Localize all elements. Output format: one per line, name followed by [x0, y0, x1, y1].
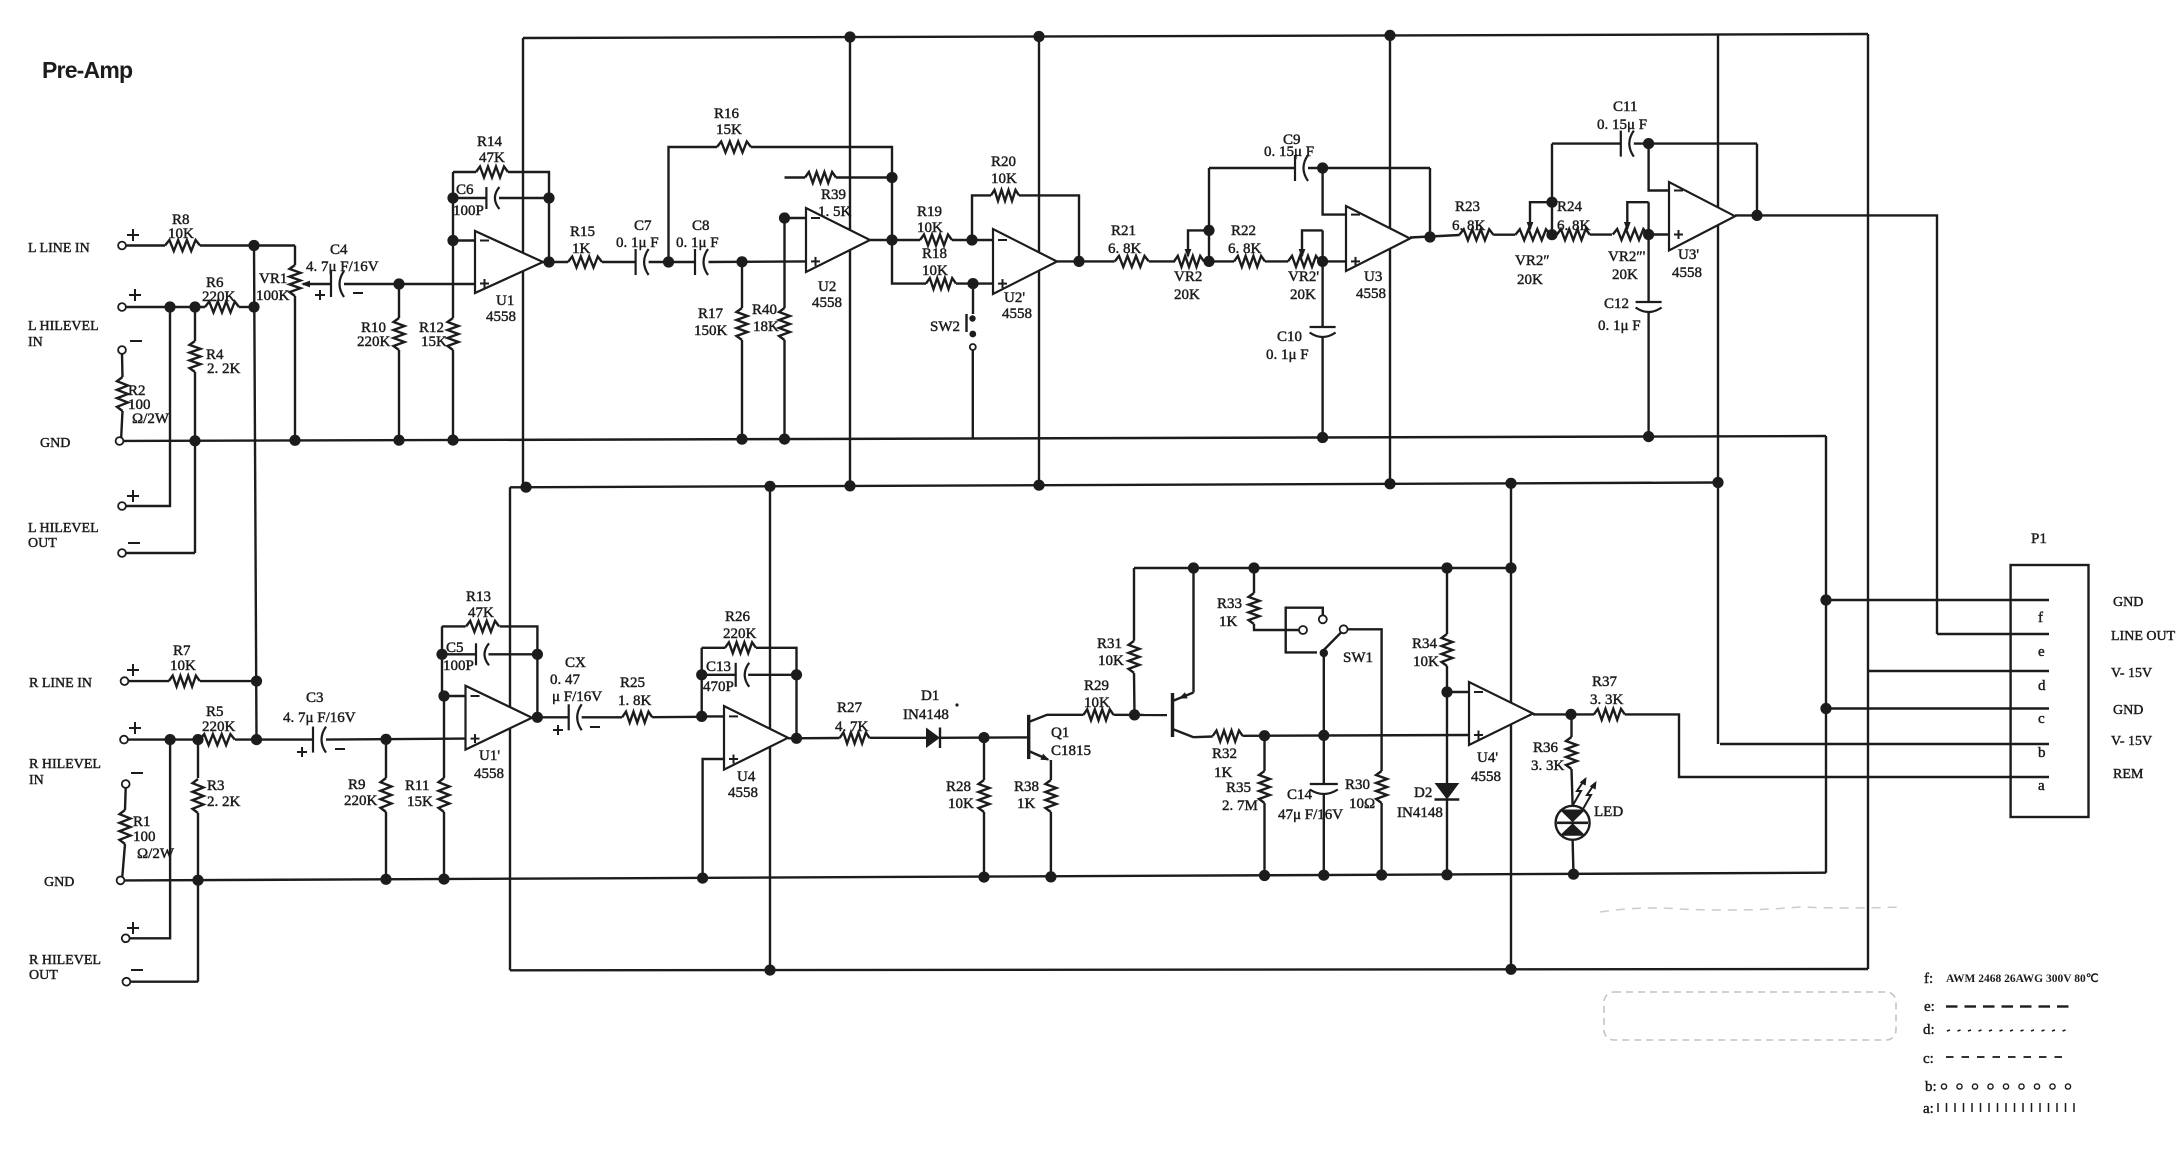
- svg-text:C12: C12: [1604, 296, 1629, 312]
- transistor Q2 emitter (to V- bus): [1173, 693, 1194, 702]
- svg-text:d: d: [2038, 678, 2046, 694]
- wire: U2 minus input: [785, 217, 807, 219]
- wire: C9 to U3 minus: [1323, 168, 1346, 215]
- resistor R37 (3.3K): [1594, 709, 1625, 720]
- svg-text:L HILEVEL: L HILEVEL: [28, 319, 99, 334]
- wire: input-mix vertical x=254 (to R channel): [254, 246, 257, 740]
- wire: R HILEVEL OUT + riser: [130, 740, 170, 939]
- wire: L HILEVEL IN to R6: [126, 306, 205, 308]
- resistor R38 (1K): [1045, 780, 1056, 812]
- resistor R30 (10 ohm): [1376, 771, 1387, 803]
- node: R4 top: [189, 301, 200, 312]
- svg-text:c: c: [2038, 711, 2045, 727]
- node: bus486 x=526: [520, 482, 531, 493]
- svg-text:IN: IN: [28, 335, 43, 350]
- node: C12-GND: [1643, 431, 1654, 442]
- wire: U1' minus input: [444, 695, 466, 697]
- node: bus970 x=770: [764, 965, 775, 976]
- capacitor C14 (47uF/16V): [1323, 735, 1325, 784]
- svg-text:C6: C6: [456, 182, 474, 198]
- wire: C3 to U1'+: [326, 739, 466, 740]
- svg-text:4558: 4558: [812, 295, 842, 311]
- node: U4 minus: [696, 711, 707, 722]
- wire: C9 to U3 output: [1429, 168, 1431, 237]
- svg-text:LED: LED: [1594, 804, 1623, 820]
- wire: mid V- bus y=486: [510, 483, 1718, 488]
- svg-text:SW2: SW2: [930, 319, 960, 335]
- svg-text:R18: R18: [922, 246, 947, 262]
- wire: U3' + input: [1649, 233, 1669, 235]
- node: C13 left: [696, 669, 707, 680]
- wire: Q2 collector to R32: [1194, 735, 1213, 738]
- node: L mix2: [248, 301, 259, 312]
- diode D2 (IN4148): [1446, 692, 1448, 783]
- resistor R12: [452, 241, 454, 319]
- wire: pin d (V- 15V): [1868, 670, 2049, 672]
- node: R mix1: [251, 676, 262, 687]
- wire: HILEVEL OUT - to R4 column: [126, 552, 195, 554]
- svg-text:100: 100: [133, 829, 156, 845]
- wire: R21 to VR2: [1149, 260, 1175, 262]
- node: bus568 x=1254: [1248, 562, 1259, 573]
- svg-text:V- 15V: V- 15V: [2111, 666, 2152, 681]
- svg-text:R30: R30: [1345, 777, 1370, 793]
- wire: Q2 emitter riser: [1192, 568, 1194, 693]
- svg-text:R36: R36: [1533, 740, 1559, 756]
- node: R3-GND: [192, 875, 203, 886]
- svg-text:15K: 15K: [407, 794, 433, 810]
- op-amp U4 (4558): [724, 706, 788, 770]
- node: R18/SW2: [967, 278, 978, 289]
- svg-text:U4: U4: [737, 769, 756, 785]
- resistor R28 (10K): [983, 738, 985, 780]
- resistor R17 (150K): [741, 262, 743, 308]
- svg-text:REM: REM: [2113, 767, 2144, 782]
- svg-text:0. 1μ F: 0. 1μ F: [1266, 347, 1309, 363]
- node: U4 output: [791, 733, 802, 744]
- switch SW1 pole and lever: [1320, 649, 1328, 657]
- svg-text:15K: 15K: [421, 334, 447, 350]
- resistor R5 (220K): [200, 734, 235, 745]
- wire: right V- drop x=1868 (top bus to pin d to bus970): [1867, 34, 1869, 969]
- svg-text:4558: 4558: [1672, 265, 1702, 281]
- node: U2 output: [886, 234, 897, 245]
- svg-text:4558: 4558: [486, 309, 516, 325]
- capacitor C8 (0.1uF): [694, 249, 696, 275]
- svg-text:μ F/16V: μ F/16V: [552, 689, 602, 705]
- svg-text:20K: 20K: [1517, 272, 1543, 288]
- wire: left V- rail x=523 (through U1): [522, 38, 524, 487]
- potentiometer VR1 wiper arrow: [303, 283, 331, 285]
- svg-text:0. 47: 0. 47: [550, 672, 581, 688]
- terminal R HILEVEL OUT +: [122, 934, 130, 942]
- potentiometer VR1 body: [294, 246, 296, 266]
- wire: R LINE IN to R7: [129, 680, 170, 682]
- node: bus486 x=770: [764, 481, 775, 492]
- svg-text:C14: C14: [1287, 787, 1313, 803]
- svg-text:L LINE IN: L LINE IN: [28, 241, 90, 256]
- wire: U4 + input to GND: [703, 759, 724, 878]
- wire: U2 apex to out: [870, 239, 920, 241]
- svg-text:10K: 10K: [917, 220, 943, 236]
- svg-text:10Ω: 10Ω: [1349, 796, 1375, 812]
- svg-text:10K: 10K: [991, 171, 1017, 187]
- svg-text:Pre-Amp: Pre-Amp: [42, 57, 133, 83]
- svg-text:2. 7M: 2. 7M: [1222, 798, 1258, 814]
- wire: HILEVEL OUT + riser: [126, 307, 170, 506]
- svg-text:R29: R29: [1084, 678, 1109, 694]
- wire: R25 to U4 minus: [652, 716, 702, 719]
- svg-text:C4: C4: [330, 242, 348, 258]
- svg-text:R17: R17: [698, 306, 724, 322]
- svg-text:GND: GND: [2113, 703, 2143, 718]
- svg-text:10K: 10K: [1413, 654, 1439, 670]
- resistor R10: [398, 284, 400, 318]
- node: R28-GND: [978, 872, 989, 883]
- wire: VR2''' node riser: [1647, 202, 1649, 234]
- svg-text:IN: IN: [29, 773, 44, 788]
- wire: R29 to Q2 base: [1114, 714, 1168, 717]
- wire: U3 out: [1410, 235, 1460, 238]
- node: R40-GND: [779, 434, 790, 445]
- svg-text:GND: GND: [2113, 595, 2143, 610]
- node: C3/R9: [380, 734, 391, 745]
- wire: R4 to GND bus and HILEVEL OUT -: [194, 372, 196, 553]
- svg-text:U2: U2: [818, 279, 836, 295]
- wire: U1 minus input: [453, 239, 475, 241]
- node: R35-GND: [1259, 870, 1270, 881]
- wire: U4 minus input: [702, 715, 724, 717]
- wire: U1 apex to output: [543, 261, 568, 263]
- svg-text:c:: c:: [1923, 1051, 1934, 1067]
- terminal L HILEVEL OUT +: [118, 502, 126, 510]
- svg-text:4558: 4558: [474, 766, 504, 782]
- svg-text:U3: U3: [1364, 269, 1382, 285]
- wire: C6/R14 left column x=453: [452, 172, 454, 241]
- op-amp U3' (4558): [1669, 182, 1735, 251]
- scan artifact: faint dashed box: [1604, 992, 1896, 1040]
- node: rail850-topbus: [844, 31, 855, 42]
- resistor R19 (10K): [920, 235, 952, 246]
- node: U2' output: [1073, 256, 1084, 267]
- node: C6 left: [447, 192, 458, 203]
- svg-text:f: f: [2038, 610, 2043, 626]
- diode D1 (IN4148): [926, 728, 940, 749]
- capacitor C5 (100P): [442, 653, 476, 655]
- svg-text:10K: 10K: [1098, 653, 1124, 669]
- node: U4' output: [1565, 709, 1576, 720]
- capacitor C10 (0.1uF): [1321, 261, 1323, 327]
- wire: D1 to Q1 base: [940, 736, 1029, 739]
- svg-text:0. 1μ F: 0. 1μ F: [676, 235, 719, 251]
- node: LED-GND: [1568, 869, 1579, 880]
- wire: U4' minus input: [1447, 691, 1469, 693]
- svg-text:3. 3K: 3. 3K: [1531, 758, 1565, 774]
- svg-text:R28: R28: [946, 779, 971, 795]
- svg-text:R19: R19: [917, 204, 942, 220]
- node: VR2'' wiper tap: [1546, 197, 1557, 208]
- svg-text:R LINE IN: R LINE IN: [29, 676, 92, 691]
- svg-text:L HILEVEL: L HILEVEL: [28, 521, 99, 536]
- potentiometer VR2''' (20K): [1613, 229, 1648, 240]
- svg-text:4. 7μ F/16V: 4. 7μ F/16V: [306, 259, 379, 275]
- wire: feedback drop to U2 out: [891, 178, 893, 241]
- node: bus486 x=1718: [1712, 477, 1723, 488]
- svg-text:R39: R39: [821, 187, 846, 203]
- wire: V- rail x=770 (bus486 to bus970, through U4): [769, 486, 771, 970]
- wire: U2' apex to R21: [1057, 260, 1115, 262]
- svg-text:R24: R24: [1557, 199, 1583, 215]
- terminal R HILEVEL OUT -: [123, 978, 131, 986]
- svg-text:220K: 220K: [344, 793, 378, 809]
- wire: V- rail x=1039 (through U2'): [1038, 37, 1040, 486]
- node: U1' output: [532, 712, 543, 723]
- svg-text:R33: R33: [1217, 596, 1242, 612]
- svg-text:C7: C7: [634, 218, 652, 234]
- svg-text:R37: R37: [1592, 674, 1618, 690]
- wire: LED to GND bus: [1571, 840, 1574, 874]
- node: pin c on GND drop: [1820, 703, 1831, 714]
- svg-text:0. 15μ F: 0. 15μ F: [1597, 117, 1647, 133]
- wire: R HILEVEL OUT - to R3: [130, 981, 198, 983]
- svg-text:6. 8K: 6. 8K: [1228, 241, 1262, 257]
- svg-text:C10: C10: [1277, 329, 1302, 345]
- resistor R11 (15K): [443, 696, 445, 778]
- svg-text:a: a: [2038, 778, 2045, 794]
- svg-text:R7: R7: [173, 643, 191, 659]
- wire: V- rail x=1718 (through U3' down to pin b): [1717, 34, 1719, 744]
- potentiometer VR2'' (20K): [1515, 229, 1550, 240]
- wire / resistor R1 (100 ohm/2W): [124, 788, 127, 810]
- svg-text:10K: 10K: [922, 263, 948, 279]
- connector P1 box: [2011, 565, 2089, 817]
- svg-text:47μ F/16V: 47μ F/16V: [1278, 807, 1343, 823]
- node: U3' output: [1751, 210, 1762, 221]
- wire: R8 to VR1 top: [200, 244, 295, 246]
- op-amp U3 (4558): [1346, 206, 1410, 271]
- svg-text:20K: 20K: [1290, 287, 1316, 303]
- transistor Q1 collector: [1029, 715, 1084, 722]
- wire: R15 to C7: [602, 261, 636, 263]
- resistor R15 (1K): [568, 257, 602, 268]
- svg-text:4. 7μ F/16V: 4. 7μ F/16V: [283, 710, 356, 726]
- terminal L HILEVEL OUT -: [118, 549, 126, 557]
- transistor Q2 collector: [1173, 729, 1194, 737]
- wire: bottom V- bus y=970: [510, 969, 1868, 970]
- svg-text:R22: R22: [1231, 223, 1256, 239]
- switch SW1 upper throw: [1319, 615, 1327, 623]
- svg-text:SW1: SW1: [1343, 650, 1373, 666]
- svg-text:b: b: [2038, 745, 2046, 761]
- svg-text:VR2″': VR2″': [1608, 249, 1646, 265]
- svg-text:0. 1μ F: 0. 1μ F: [616, 235, 659, 251]
- svg-text:U4': U4': [1477, 750, 1498, 766]
- potentiometer VR2''' wiper: [1626, 208, 1628, 229]
- node: R38-GND: [1045, 871, 1056, 882]
- wire / resistor R2: minus terminal to GND: [121, 354, 124, 377]
- wire: R37 to REM pin a: [1625, 714, 2049, 777]
- node: bus568 x=1447: [1441, 562, 1452, 573]
- resistor R9 (220K): [385, 739, 387, 778]
- node: U1 output: [543, 256, 554, 267]
- svg-text:D1: D1: [921, 688, 939, 704]
- node: C7/C8 junction: [663, 256, 674, 267]
- wire: C11 to U3' minus: [1649, 144, 1669, 191]
- wire: SW1 pole to node: [1323, 657, 1325, 735]
- svg-text:R5: R5: [206, 704, 224, 720]
- wire: R6 to mix node: [239, 306, 254, 308]
- wire: pin c (GND): [1826, 707, 2049, 709]
- svg-text:R34: R34: [1412, 636, 1438, 652]
- svg-text:10K: 10K: [948, 796, 974, 812]
- svg-text:10K: 10K: [1084, 695, 1110, 711]
- svg-text:U3': U3': [1678, 247, 1699, 263]
- terminal GND (L): [116, 437, 124, 445]
- svg-text:C8: C8: [692, 218, 710, 234]
- svg-text:0. 15μ F: 0. 15μ F: [1264, 144, 1314, 160]
- wire: U2 out to R18 row: [892, 240, 926, 284]
- svg-text:10K: 10K: [168, 226, 194, 242]
- potentiometer VR2'' wiper: [1529, 208, 1531, 229]
- svg-text:2. 2K: 2. 2K: [207, 794, 241, 810]
- svg-text:R27: R27: [837, 700, 863, 716]
- wire: CX to R25: [582, 716, 623, 718]
- resistor R36 (3.3K): [1570, 714, 1572, 737]
- svg-text:C1815: C1815: [1051, 743, 1091, 759]
- node: C5 left: [436, 649, 447, 660]
- potentiometer VR2' wiper: [1301, 236, 1303, 256]
- svg-text:C13: C13: [706, 659, 731, 675]
- svg-text:D2: D2: [1414, 785, 1432, 801]
- wire: R4 column x=195: [194, 307, 196, 341]
- terminal R HILEVEL IN -: [122, 780, 130, 788]
- svg-text:R26: R26: [725, 609, 751, 625]
- wire: top V- bus: [523, 34, 1868, 38]
- wire: R18 to U2' plus: [956, 282, 993, 284]
- resistor R32 (1K): [1213, 731, 1243, 742]
- node: R4-GND: [189, 435, 200, 446]
- svg-text:220K: 220K: [357, 334, 391, 350]
- wire: L LINE IN to R8: [126, 244, 165, 246]
- svg-text:R9: R9: [348, 777, 366, 793]
- wire: C4 to U1+: [344, 283, 475, 285]
- terminal R LINE IN: [121, 677, 129, 685]
- resistor R3 (2.2K): [197, 740, 199, 778]
- wire: V- rail x=1511 (bus486 through U4' to bus970): [1510, 483, 1512, 969]
- svg-text:IN4148: IN4148: [903, 707, 949, 723]
- node: bus486 x=1390: [1384, 478, 1395, 489]
- svg-text:1. 8K: 1. 8K: [618, 693, 652, 709]
- resistor R6: [205, 302, 239, 313]
- wire: C5/R13 left column x=442: [441, 626, 443, 696]
- op-amp U1 (4558): [475, 231, 543, 293]
- op-amp U2' (4558): [993, 229, 1057, 294]
- svg-text:20K: 20K: [1174, 287, 1200, 303]
- node: R3 top: [192, 734, 203, 745]
- svg-text:0. 1μ F: 0. 1μ F: [1598, 318, 1641, 334]
- svg-text:R31: R31: [1097, 636, 1122, 652]
- svg-text:OUT: OUT: [28, 536, 57, 551]
- wire: V- rail x=850 (through U2): [849, 37, 851, 486]
- node: U2 minus: [779, 212, 790, 223]
- node: pin f on GND drop: [1820, 594, 1831, 605]
- capacitor C11 (0.15uF): [1552, 142, 1621, 144]
- svg-text:15K: 15K: [716, 122, 742, 138]
- svg-text:100P: 100P: [443, 658, 474, 674]
- svg-text:R HILEVEL: R HILEVEL: [29, 757, 101, 772]
- svg-text:R20: R20: [991, 154, 1016, 170]
- node: D2-GND: [1441, 869, 1452, 880]
- resistor R27 (4.7K): [840, 733, 870, 744]
- node: C6 right: [543, 192, 554, 203]
- svg-text:f:: f:: [1924, 971, 1933, 987]
- node: rail1390-topbus: [1384, 30, 1395, 41]
- resistor R16 (15K) feedback: [669, 147, 718, 262]
- svg-text:VR2″: VR2″: [1515, 253, 1550, 269]
- svg-text:CX: CX: [565, 655, 586, 671]
- svg-text:U2': U2': [1004, 290, 1025, 306]
- svg-text:4558: 4558: [1356, 286, 1386, 302]
- node: U3 output: [1424, 231, 1435, 242]
- resistor R39 (1.5K) feedback: [785, 176, 806, 178]
- wire: GND drop x=1826: [1825, 436, 1827, 873]
- resistor R33 (1K): [1253, 568, 1255, 593]
- node: C11 right: [1643, 138, 1654, 149]
- node: hilevel-out+ tap (R): [165, 734, 176, 745]
- potentiometer VR2 wiper: [1187, 236, 1189, 256]
- svg-text:R23: R23: [1455, 199, 1480, 215]
- switch SW1 left throw: [1299, 626, 1307, 634]
- wire: U3' out to LINE OUT drop: [1735, 215, 1937, 634]
- svg-text:GND: GND: [44, 875, 74, 890]
- svg-text:e: e: [2038, 644, 2045, 660]
- svg-text:R25: R25: [620, 675, 645, 691]
- resistor R29 (10K): [1084, 709, 1114, 720]
- svg-text:C11: C11: [1613, 99, 1637, 115]
- resistor R14 (47K): [453, 171, 476, 173]
- capacitor CX (0.47uF/16V): [568, 704, 570, 730]
- svg-text:6. 8K: 6. 8K: [1557, 218, 1591, 234]
- wire: R-channel GND bus: [120, 873, 1826, 881]
- svg-text:1K: 1K: [1219, 614, 1238, 630]
- svg-text:d:: d:: [1923, 1022, 1935, 1038]
- wire: C7 to C8: [649, 261, 695, 263]
- node: VR1-GND: [289, 435, 300, 446]
- node: SW1/C14: [1318, 730, 1329, 741]
- wire: U1' out to CX: [532, 716, 569, 718]
- svg-text:4. 7K: 4. 7K: [835, 719, 869, 735]
- svg-text:U1: U1: [496, 293, 514, 309]
- node: C8/R17: [736, 256, 747, 267]
- node: VR2'/U3+: [1317, 256, 1328, 267]
- capacitor C4 (4.7uF/16V): [330, 271, 332, 297]
- wire: SW1 right throw to R30 column: [1348, 629, 1382, 771]
- resistor R20 (10K) feedback: [972, 195, 991, 240]
- node: R39 right / R16: [886, 172, 897, 183]
- svg-text:R38: R38: [1014, 779, 1039, 795]
- svg-text:10K: 10K: [170, 658, 196, 674]
- svg-text:4558: 4558: [728, 785, 758, 801]
- wire: lower V- bus y=568: [1134, 567, 1511, 569]
- resistor R34 (10K): [1446, 568, 1448, 634]
- resistor R22 (6.8K): [1234, 256, 1265, 267]
- switch SW1 bracket: [1286, 608, 1323, 653]
- svg-text:1K: 1K: [572, 241, 591, 257]
- svg-text:1K: 1K: [1214, 765, 1233, 781]
- node: R19/R20: [966, 234, 977, 245]
- node: C5 right: [532, 649, 543, 660]
- svg-text:LINE OUT: LINE OUT: [2111, 629, 2176, 644]
